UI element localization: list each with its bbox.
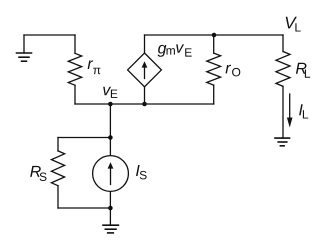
label VL [286,17,301,32]
resistor R2 rO [207,35,221,104]
wire (top rail: diamond top to RL corner) [145,34,284,36]
resistor R4 RL [276,35,290,138]
ground GND2 (bottom center) [103,208,118,233]
current source IS (circle) [93,138,129,209]
label IS [136,165,147,179]
controlled current source G1 gm*vE (diamond) [128,35,162,104]
junction (top rail / rO) [212,33,217,38]
label RL [296,63,310,78]
current arrow IL [287,94,293,128]
label RS [30,166,46,181]
label IL [299,104,308,118]
junction (RS branch tee) [108,135,113,140]
resistor R3 RS [51,138,64,209]
wire (ground to r_pi top) [24,34,75,36]
junction (vE node) [108,102,113,107]
wire (vE node down to RS branch) [109,104,111,138]
wire (RS bottom horizontal) [58,207,110,209]
wire (node vE rail) [75,103,214,105]
label r_pi [88,60,101,74]
label vE [103,87,117,98]
resistor R1 r_pi [68,35,81,104]
label rO [226,65,241,77]
junction (bottom node) [108,206,113,211]
wire (RS top horizontal) [58,137,110,139]
label gm vE [158,44,192,56]
ground GND3 (bottom right) [275,138,290,146]
ground GND1 (top left) [17,35,32,61]
junction (diamond bottom on vE rail) [142,102,147,107]
